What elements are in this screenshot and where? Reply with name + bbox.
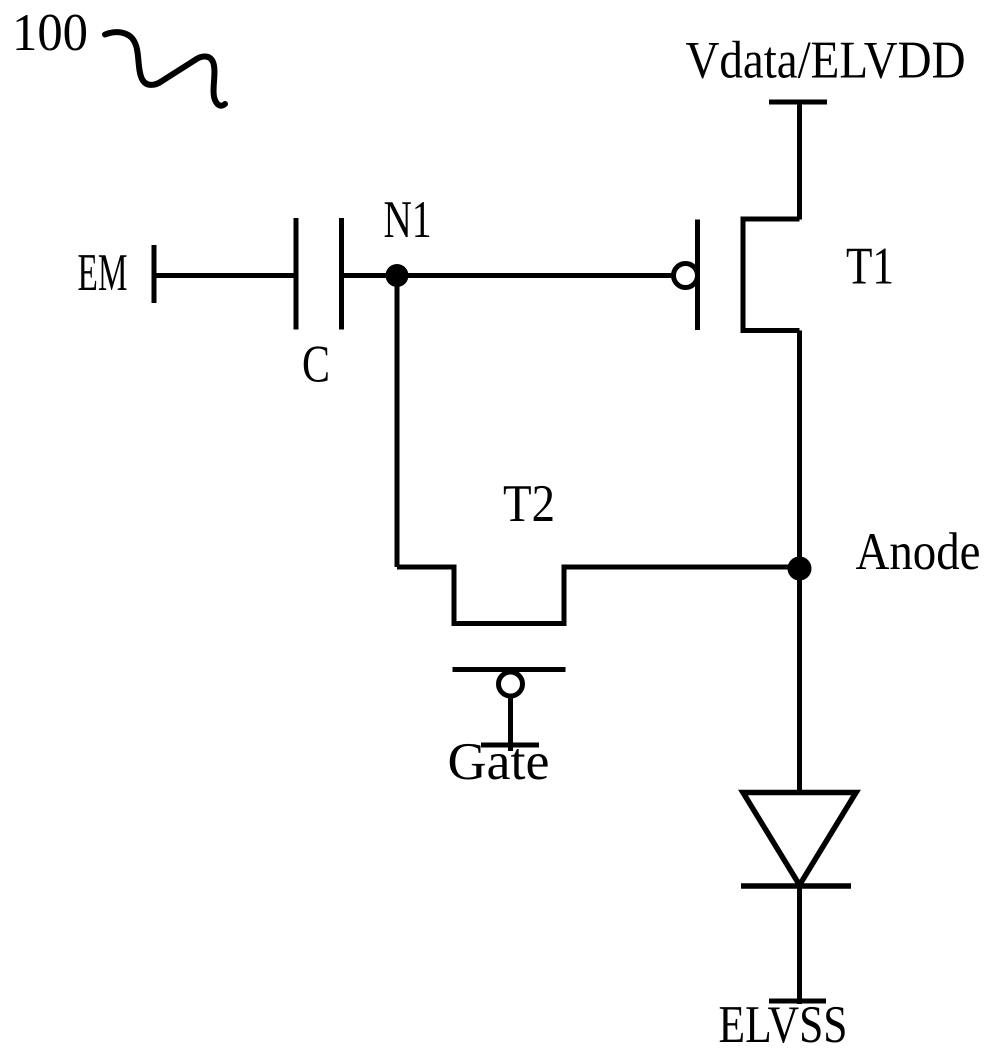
wire T1 to diode [797,331,802,793]
transistor T1 [743,219,800,331]
svg-text:EM: EM [78,244,128,302]
svg-text:100: 100 [12,4,88,62]
T2 gate bubble [499,672,523,696]
svg-text:T1: T1 [846,238,894,296]
leader squiggle [105,32,225,106]
svg-text:T2: T2 [503,475,555,533]
wire N1 down [395,276,400,568]
svg-text:N1: N1 [384,191,432,249]
svg-text:Gate: Gate [448,733,550,791]
node N1 [386,264,409,287]
svg-text:Anode: Anode [856,523,981,581]
gate terminal bar [481,743,539,748]
wire diode to ELVSS [797,885,802,1004]
T1 gate plate [695,220,700,331]
transistor T2 channel [397,567,800,624]
diode cathode bar [741,883,851,889]
capacitor C [294,218,299,330]
power terminal bar [769,100,827,105]
gate stem [508,696,513,751]
svg-text:ELVSS: ELVSS [719,996,848,1054]
wire rail to T1 [797,102,802,220]
T1 gate bubble [674,264,698,288]
svg-text:C: C [302,336,330,394]
diode D (OLED) [743,793,856,886]
svg-text:Vdata/ELVDD: Vdata/ELVDD [686,32,966,90]
node Anode [788,557,812,581]
wire EM to capacitor [154,273,296,278]
wire capacitor to T1 gate [342,273,674,278]
T2 gate line [453,667,566,672]
EM terminal [152,245,157,303]
ELVSS terminal bar [769,999,826,1004]
